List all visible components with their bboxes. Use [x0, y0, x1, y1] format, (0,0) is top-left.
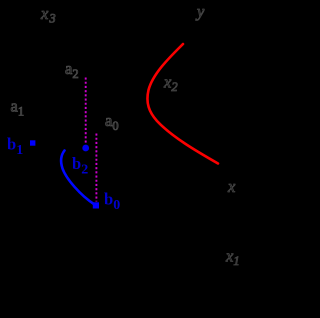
dotted fiber line 2 [95, 134, 97, 202]
blue curve [61, 151, 94, 205]
point b1 [30, 140, 35, 145]
svg-text:y: y [195, 2, 205, 21]
point b0 [93, 202, 99, 208]
svg-text:x: x [227, 177, 236, 196]
dotted fiber line 1 [85, 78, 87, 145]
red curve [147, 44, 218, 164]
point b2 [82, 145, 89, 152]
